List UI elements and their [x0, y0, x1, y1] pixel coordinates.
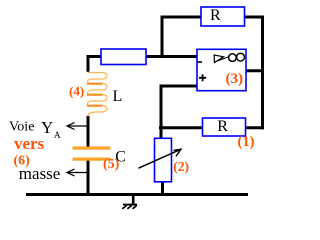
svg-text:vers: vers	[14, 134, 45, 153]
svg-text:R: R	[210, 7, 221, 24]
svg-text:R: R	[217, 118, 228, 135]
svg-text:L: L	[113, 88, 123, 105]
svg-text:Voie: Voie	[9, 119, 34, 134]
svg-text:A: A	[54, 130, 61, 140]
svg-text:(1): (1)	[238, 134, 255, 150]
svg-text:(3): (3)	[226, 71, 244, 87]
svg-text:(5): (5)	[103, 157, 120, 172]
svg-text:(4): (4)	[69, 84, 84, 99]
svg-text:(2): (2)	[173, 159, 189, 174]
svg-text:(6): (6)	[14, 154, 31, 169]
